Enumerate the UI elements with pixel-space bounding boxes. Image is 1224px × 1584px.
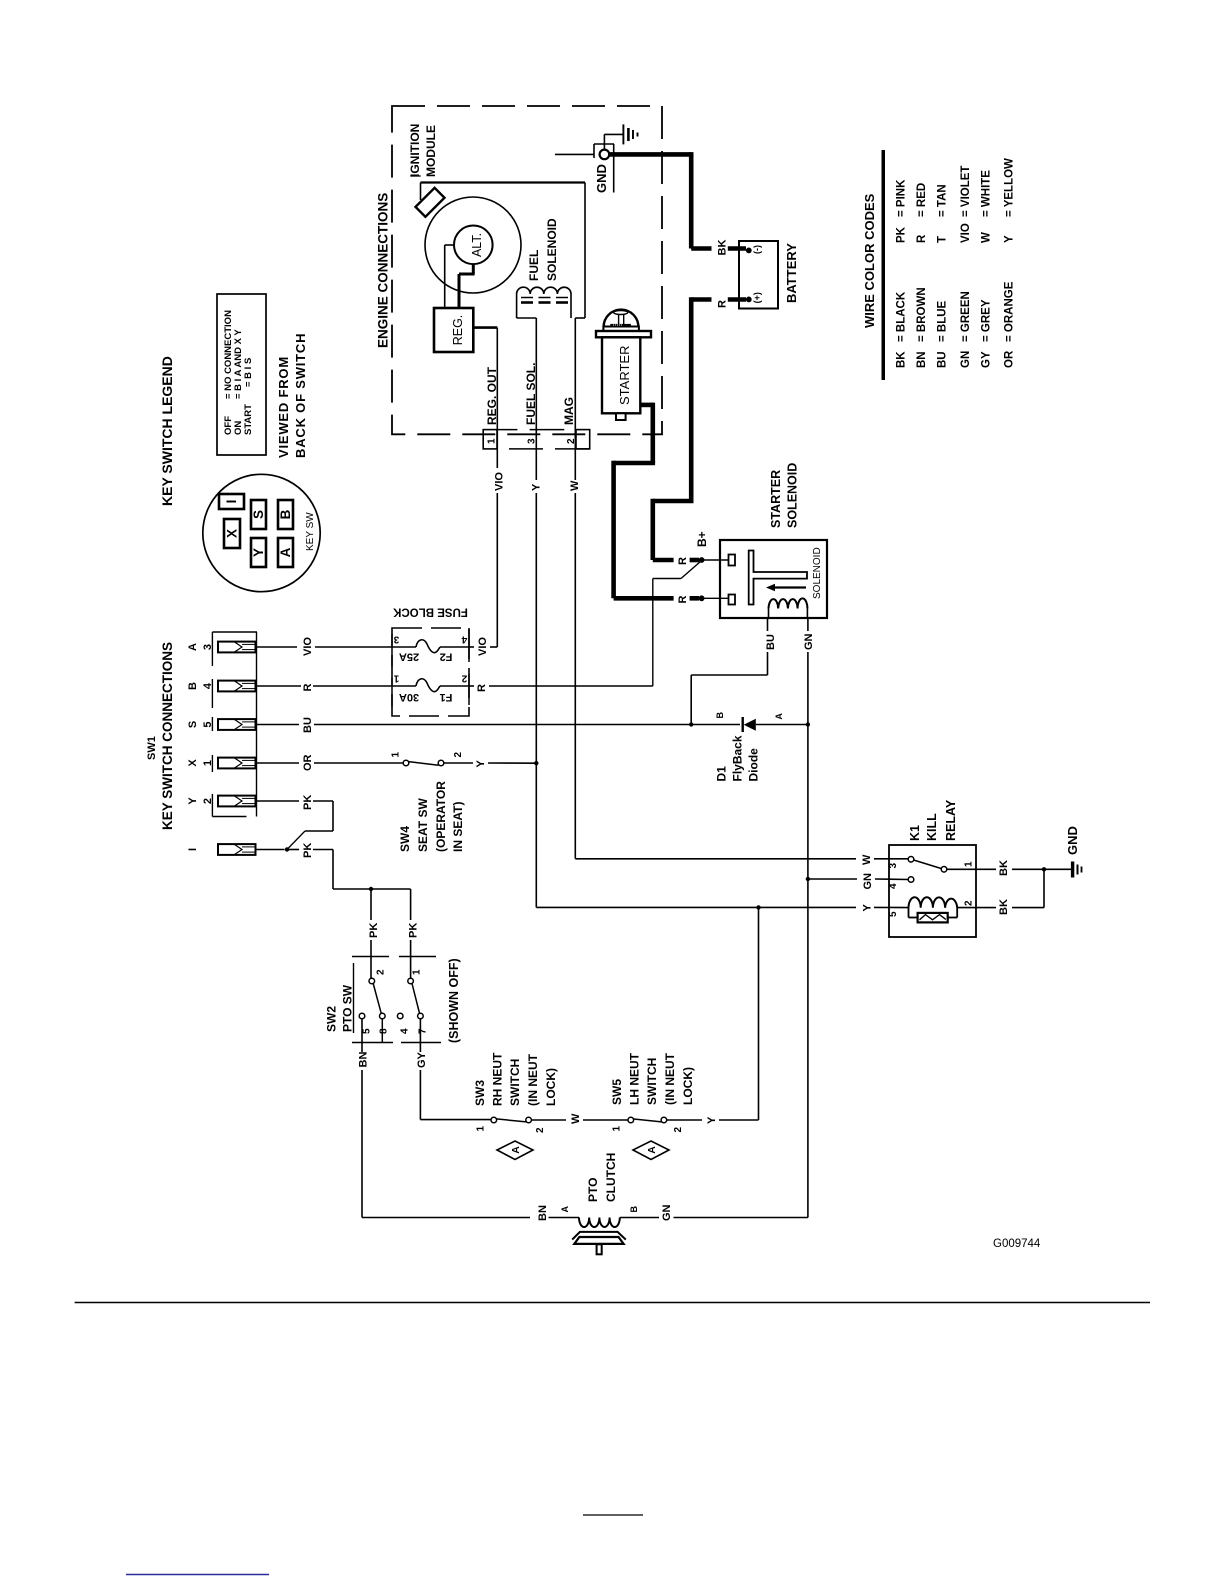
svg-text:I: I [224,500,239,504]
svg-text:STARTER: STARTER [769,470,783,528]
fuel solenoid coil [517,287,571,294]
svg-text:5: 5 [362,1028,373,1034]
svg-text:MODULE: MODULE [424,125,438,177]
svg-text:1: 1 [393,673,399,684]
SW1 pin X spade terminal [218,758,256,769]
svg-text:S: S [187,721,199,728]
svg-text:KEY SWITCH CONNECTIONS: KEY SWITCH CONNECTIONS [160,642,175,830]
svg-text:R: R [717,300,729,308]
svg-text:2: 2 [376,969,387,975]
svg-text:GY: GY [416,1051,428,1068]
node diode B junction [689,722,693,726]
solenoid arrow [773,586,806,588]
wire thick battery positive [728,297,746,302]
svg-text:BU: BU [765,634,777,650]
wire Y into kill relay pin 5 [536,906,856,908]
svg-text:Y: Y [706,1116,718,1124]
svg-text:= BROWN: = BROWN [916,287,928,342]
svg-text:VIO: VIO [302,637,314,656]
starter body [602,337,640,413]
wire PK bus down to PTO switch [332,850,334,890]
svg-text:(OPERATOR: (OPERATOR [434,781,448,852]
solenoid blade wire [652,579,654,687]
ignition module symbol [420,183,422,201]
svg-text:FUSE BLOCK: FUSE BLOCK [392,606,467,618]
svg-text:BN: BN [916,351,928,368]
wire key switch blade path [332,801,334,831]
svg-text:MAG: MAG [562,397,576,425]
svg-text:I: I [187,848,199,851]
svg-text:VIO: VIO [494,472,506,491]
SW5 contacts [628,1117,634,1123]
svg-text:2: 2 [202,798,214,804]
svg-text:SW4: SW4 [398,826,412,852]
svg-text:R: R [476,684,488,692]
svg-text:SW3: SW3 [473,1080,487,1106]
regulator REG box [434,308,473,352]
svg-text:2: 2 [566,438,577,444]
svg-text:= GREEN: = GREEN [960,291,972,342]
svg-text:2: 2 [964,900,975,906]
svg-text:= RED: = RED [916,183,928,217]
relay blade [914,860,942,869]
svg-text:SOLENOID: SOLENOID [812,547,823,599]
wire to GND terminal [555,153,594,155]
svg-text:D1: D1 [715,766,729,782]
svg-text:B: B [187,682,199,690]
fuse block dashed outline [392,628,469,716]
solenoid terminal pads [729,555,736,566]
svg-text:SWITCH: SWITCH [508,1059,522,1106]
svg-text:Diode: Diode [747,748,761,782]
svg-text:S: S [251,510,266,519]
svg-text:BK: BK [998,899,1010,915]
SW2 pole 1 contacts [369,978,375,984]
svg-text:PK: PK [408,923,420,938]
starter solenoid box [720,540,827,618]
svg-text:GY: GY [981,351,993,368]
wire BU solenoid coil lead [767,618,769,631]
node PK branch [369,887,373,891]
starter brush bar [610,324,631,327]
key switch face circle [203,474,320,591]
fuse F1 30A [391,678,393,707]
svg-text:BACK OF SWITCH: BACK OF SWITCH [293,333,308,458]
svg-text:VIO: VIO [477,637,489,656]
engine connector strip pin 1 [483,430,497,449]
starter dome [604,310,639,327]
svg-text:REG.: REG. [451,315,465,346]
svg-text:2: 2 [453,752,464,758]
svg-text:RH NEUT: RH NEUT [491,1052,505,1106]
wire GN from PTO clutch [620,1217,659,1219]
relay contact pin 4 [908,877,914,883]
wire thick battery negative: GND to battery [606,152,691,157]
svg-text:5: 5 [202,721,214,727]
fuse F2 25A [391,634,393,667]
svg-text:W: W [570,1113,582,1124]
svg-text:VIEWED FROM: VIEWED FROM [276,356,291,458]
svg-text:1: 1 [391,752,402,758]
SW1 pin S spade terminal [218,719,256,730]
svg-text:SW2: SW2 [325,1006,339,1032]
key pin box S [251,500,266,529]
starter nub [616,413,626,420]
svg-text:1: 1 [612,1126,623,1132]
svg-text:KILL: KILL [925,813,939,841]
SW1 pin B spade terminal [218,681,256,692]
svg-text:X: X [187,759,199,767]
svg-text:W: W [861,854,873,865]
svg-text:PK: PK [302,795,314,810]
svg-text:LH NEUT: LH NEUT [628,1052,642,1105]
svg-text:START: START [243,404,254,435]
svg-text:B+: B+ [695,531,709,547]
svg-text:F2: F2 [440,651,453,663]
diamond A marker SW5 [633,1141,669,1160]
wire BK from pin 2 [976,907,996,909]
svg-text:PTO: PTO [586,1178,600,1202]
GND terminal circle [600,150,610,160]
wire OR from pin X to SW4 [256,762,300,764]
SW1 pin Y spade terminal [218,796,256,807]
footer rule [75,1302,1150,1304]
svg-text:= BLUE: = BLUE [937,300,949,342]
wire GN into kill relay pin 4 [808,878,857,880]
svg-text:PK: PK [302,843,314,858]
fuel solenoid body [516,294,518,318]
wire Y from SW5 to kill relay line [667,1119,702,1121]
svg-text:= VIOLET: = VIOLET [960,166,972,217]
wire BN from SW2 pin 5 [361,1019,363,1052]
svg-text:A: A [510,1146,522,1154]
svg-text:STARTER: STARTER [617,346,632,405]
wire W into kill relay pin 3 [575,858,856,860]
svg-text:= YELLOW: = YELLOW [1004,158,1016,217]
svg-text:(IN NEUT: (IN NEUT [663,1052,677,1105]
wire W between SW3 and SW5 [531,1119,566,1121]
svg-text:F1: F1 [440,691,453,703]
svg-text:GN: GN [960,351,972,368]
wire MAG to pin 2 [574,318,576,480]
svg-text:SOLENOID: SOLENOID [545,218,559,281]
key pin box B [278,500,293,529]
svg-text:FlyBack: FlyBack [731,735,745,781]
diode D1 flyback [691,724,740,726]
svg-text:PTO SW: PTO SW [341,984,355,1032]
svg-text:PK: PK [896,226,908,243]
starter flange [603,327,639,332]
svg-text:25A: 25A [399,651,419,663]
wire R from fuse F1 to solenoid coil node [469,685,474,687]
svg-text:SEAT SW: SEAT SW [416,798,430,852]
svg-text:3: 3 [888,863,899,869]
svg-text:= TAN: = TAN [937,184,949,217]
svg-text:3: 3 [393,634,399,645]
svg-text:(-): (-) [752,245,762,254]
SW1 pin I spade terminal [218,844,256,855]
svg-text:1: 1 [487,438,498,444]
solenoid coil [769,598,808,608]
wire GN solenoid coil lead [807,618,809,631]
solenoid plunger T [749,551,807,605]
svg-text:REG. OUT: REG. OUT [485,366,499,425]
svg-text:KEY SW: KEY SW [305,512,316,551]
svg-text:GND: GND [1065,826,1080,855]
wire PK from pin Y [256,800,300,802]
wire thick starter to solenoid [640,403,653,408]
svg-text:BN: BN [358,1052,370,1068]
svg-text:R: R [302,684,314,692]
relay contact pin 3 [908,857,914,863]
svg-text:8: 8 [379,1028,390,1034]
wire ALT to REG left [445,244,454,246]
svg-text:2: 2 [535,1127,546,1133]
svg-text:FUEL SOL.: FUEL SOL. [524,363,538,425]
svg-text:GN: GN [862,873,874,890]
PTO clutch chassis mount [572,1232,626,1240]
svg-text:A: A [774,713,784,720]
node pin I junction [285,847,289,851]
svg-text:1: 1 [202,760,214,766]
svg-text:3: 3 [527,438,538,444]
svg-text:= BLACK: = BLACK [896,291,908,342]
svg-text:G009744: G009744 [993,1238,1041,1250]
svg-text:1: 1 [964,861,975,867]
svg-text:B: B [629,1206,639,1213]
svg-text:OR: OR [302,754,314,771]
svg-text:4: 4 [400,1028,411,1034]
wire R from pin B to fuse F1 [256,685,302,687]
wire ignition module to MAG [421,181,586,183]
svg-text:1: 1 [476,1126,487,1132]
svg-text:5: 5 [888,911,899,917]
svg-text:= PINK: = PINK [896,179,908,217]
key pin box A [278,538,293,567]
svg-text:K1: K1 [908,825,922,841]
relay contact pin 1 [941,867,947,873]
svg-text:R: R [677,596,689,604]
svg-text:= ORANGE: = ORANGE [1004,281,1016,342]
svg-text:FUEL: FUEL [527,250,541,281]
wire PK from pin I [256,849,285,851]
svg-text:A: A [646,1146,658,1154]
SW1 housing bracket [212,631,257,633]
svg-text:ENGINE CONNECTIONS: ENGINE CONNECTIONS [376,193,391,348]
diamond A marker SW3 [497,1141,533,1160]
svg-text:BK: BK [896,351,908,368]
ground symbol top [603,134,605,149]
SW1 pin A spade terminal [218,642,256,653]
svg-text:W: W [569,480,581,491]
svg-text:PK: PK [368,923,380,938]
svg-text:ALT.: ALT. [470,233,484,257]
svg-text:X: X [225,529,240,538]
svg-text:4: 4 [202,682,214,689]
svg-text:VIO: VIO [960,223,972,243]
svg-text:Y: Y [475,760,487,768]
svg-text:= GREY: = GREY [981,299,993,342]
svg-text:1: 1 [412,969,423,975]
svg-text:= WHITE: = WHITE [981,170,993,217]
wire PK to SW2 pin 1 [410,889,412,920]
SW2 bracket [352,956,389,958]
svg-text:3: 3 [202,644,214,650]
svg-text:A: A [278,547,293,557]
battery box [739,241,778,309]
svg-text:BK: BK [998,860,1010,876]
wire FUEL SOL to pin 3 [535,318,537,480]
relay coil [909,897,958,908]
wire REG OUT [473,326,497,329]
svg-text:A: A [187,643,199,651]
SW2 pole 2 contacts [408,978,414,984]
svg-text:Y: Y [251,548,266,557]
alternator outer circle [425,197,521,293]
svg-text:RELAY: RELAY [944,799,958,841]
relay resistor parallel [908,908,910,918]
engine connections dashed box [392,106,662,434]
svg-text:BN: BN [537,1205,549,1221]
svg-text:7: 7 [418,1028,429,1034]
svg-text:4: 4 [461,634,467,645]
svg-text:Y: Y [1004,235,1016,243]
kill relay box [889,845,976,937]
alternator ALT inner circle [454,226,493,265]
svg-text:4: 4 [888,883,899,889]
svg-text:SOLENOID: SOLENOID [786,463,800,528]
svg-text:BATTERY: BATTERY [784,243,799,303]
svg-text:A: A [560,1206,570,1213]
svg-text:GND: GND [594,164,609,193]
svg-text:Y: Y [862,904,874,912]
color codes rule bar [882,150,886,380]
svg-text:SW5: SW5 [610,1079,624,1105]
svg-text:LOCK): LOCK) [544,1068,558,1106]
footer blue link line [126,1574,269,1576]
svg-text:R: R [916,234,928,243]
svg-text:(+): (+) [752,292,762,303]
wire BU from pin S to diode node [256,724,300,726]
key pin box I [219,494,244,509]
svg-text:SWITCH: SWITCH [645,1058,659,1105]
svg-text:BU: BU [937,351,949,368]
wire VIO from pin A to fuse F2 [256,646,298,648]
svg-text:CLUTCH: CLUTCH [604,1153,618,1202]
svg-text:GN: GN [803,633,815,650]
svg-text:Y: Y [187,797,199,805]
ground symbol right [1071,862,1074,878]
svg-text:B: B [278,509,293,519]
legend box [217,294,266,455]
svg-text:BK: BK [717,240,729,256]
svg-text:OR: OR [1004,350,1016,368]
svg-text:SW1: SW1 [146,736,158,760]
key pin box Y [251,538,266,567]
svg-text:(IN NEUT: (IN NEUT [526,1053,540,1106]
svg-text:KEY SWITCH LEGEND: KEY SWITCH LEGEND [159,356,175,506]
footer short line [583,1514,643,1516]
engine connector strip middle lines [497,429,517,431]
wire PK to SW2 pin 2 [370,889,372,920]
seat switch SW4 contacts [403,760,409,766]
svg-text:IN SEAT): IN SEAT) [451,802,465,852]
svg-text:2: 2 [673,1127,684,1133]
engine connector strip pin 2 box [576,430,590,449]
fuel solenoid core dashes [521,297,533,299]
wire VIO from fuse F2 to engine pin 1 [469,646,474,648]
wire Y from SW4 pin2 [444,762,473,764]
svg-text:R: R [677,557,689,565]
svg-text:W: W [981,232,993,243]
svg-text:WIRE COLOR CODES: WIRE COLOR CODES [862,193,877,328]
svg-text:BU: BU [302,717,314,733]
wire GY from SW2 pin 7 [419,1019,421,1052]
SW3 contacts [491,1117,497,1123]
svg-text:(SHOWN OFF): (SHOWN OFF) [447,958,461,1043]
svg-text:B: B [715,712,725,719]
wire ALT to REG thick [472,264,475,274]
svg-text:IGNITION: IGNITION [408,124,422,177]
svg-text:= B I S: = B I S [243,358,254,387]
svg-text:LOCK): LOCK) [681,1067,695,1105]
svg-text:T: T [937,236,949,243]
svg-text:2: 2 [461,673,467,684]
svg-text:Y: Y [531,483,543,491]
svg-text:GN: GN [661,1204,673,1221]
PTO clutch coil [579,1218,620,1228]
key pin box X [224,519,240,548]
svg-text:30A: 30A [399,691,419,703]
GND terminal box [594,143,614,145]
